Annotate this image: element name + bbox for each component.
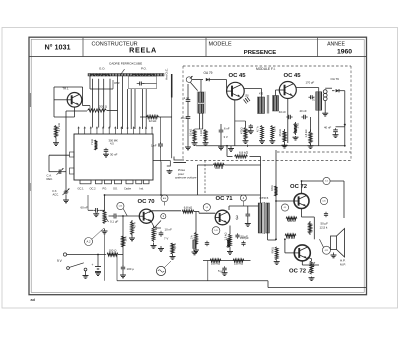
svg-text:antenne voiture: antenne voiture	[175, 176, 197, 180]
svg-text:OC 45: OC 45	[228, 73, 246, 79]
test point circle 1.16	[117, 202, 124, 209]
trimmer C.A. REC.	[58, 171, 60, 173]
wire 6.8k right down to transformer	[260, 156, 262, 203]
capacitor hang 207	[206, 241, 208, 243]
IF transformer T1 secondary	[273, 96, 279, 112]
wire transformer top left	[259, 196, 261, 203]
speaker cone	[337, 229, 345, 258]
wire P.O. box tap down a	[117, 76, 119, 129]
svg-text:1 nF: 1 nF	[151, 144, 157, 148]
svg-text:M.P.: M.P.	[340, 263, 346, 267]
svg-text:1 nF: 1 nF	[184, 96, 190, 100]
wire battery bus	[67, 254, 106, 256]
test point 5.6	[323, 177, 330, 184]
ground x188	[187, 146, 189, 147]
wire base down	[195, 212, 197, 231]
svg-text:7 kΩ: 7 kΩ	[90, 139, 94, 145]
junction dot rail276 y239	[275, 238, 277, 240]
svg-text:Cadre: Cadre	[124, 187, 132, 191]
svg-text:6,8 kΩ: 6,8 kΩ	[184, 206, 193, 210]
svg-text:OA 79: OA 79	[204, 71, 213, 75]
wire OC45b collector right	[296, 87, 318, 89]
capacitor 10nF oc70	[160, 231, 162, 233]
wire oc72u emitter	[301, 209, 303, 218]
wire tp1 diagonal	[154, 221, 161, 228]
svg-text:OTR: OTR	[114, 81, 120, 85]
junction dot oc72u collector	[301, 180, 303, 182]
resistor 900 on rail x276 lower	[275, 247, 278, 260]
switch blade	[69, 263, 84, 268]
wire to OC71 base	[194, 211, 199, 213]
svg-text:32 kΩ: 32 kΩ	[149, 119, 157, 123]
svg-text:400 Ω: 400 Ω	[215, 166, 224, 170]
dashed box module F.I. left	[182, 66, 184, 161]
wire trimmer1 leads	[49, 154, 70, 156]
ground under T1 cap	[250, 129, 252, 131]
transistor OC72 lower	[294, 245, 310, 261]
svg-text:PO.: PO.	[103, 187, 108, 191]
resistor 6.8k low	[285, 234, 296, 237]
svg-text:200 Ω: 200 Ω	[99, 105, 108, 109]
svg-text:ad: ad	[31, 298, 36, 302]
test point A.M	[161, 195, 168, 202]
svg-text:100 kΩ: 100 kΩ	[211, 262, 221, 266]
wire TR1 collector to bus	[65, 113, 67, 126]
capacitor 0.1uF coupling	[113, 215, 115, 217]
svg-text:6,8 kΩ: 6,8 kΩ	[286, 236, 295, 240]
diode D1 OA79	[206, 78, 209, 81]
gang block left tabs	[70, 152, 75, 157]
ground under 5uF	[224, 271, 226, 273]
junction tick b	[283, 145, 285, 147]
svg-text:5,6: 5,6	[325, 181, 328, 183]
capacitor 46nF	[187, 115, 189, 117]
wire A.M stub	[164, 202, 166, 206]
wire bus drop to block	[65, 111, 67, 150]
svg-text:0,1 µF: 0,1 µF	[110, 220, 118, 224]
wire x319 down	[318, 265, 320, 288]
coil L1 G.O. winding scallops	[91, 74, 110, 76]
resistor 6.8k	[235, 155, 248, 158]
wire OC45a collector right	[244, 88, 262, 90]
dashed box module F.I. top	[183, 65, 351, 67]
svg-text:7 V: 7 V	[164, 237, 168, 241]
thick antenna bar	[171, 74, 173, 98]
header divider 3	[317, 38, 319, 57]
speaker driver rect	[331, 236, 337, 250]
bottom long rail y280.7	[117, 280, 268, 282]
junction bus 123	[122, 255, 124, 267]
oscillator coil winding lower	[198, 104, 203, 113]
wire speaker top	[337, 232, 339, 236]
svg-text:4,7 kΩ: 4,7 kΩ	[57, 123, 61, 131]
resistor inside gang 7k	[95, 140, 98, 150]
svg-text:150 kΩ: 150 kΩ	[234, 262, 244, 266]
transistor TR1	[67, 93, 82, 108]
wire 475 top	[245, 121, 247, 128]
transistor OC72 upper	[294, 194, 309, 209]
resistor 32k	[147, 115, 159, 118]
resistor 2k base down	[195, 231, 198, 248]
car antenna jack symbol	[174, 157, 184, 161]
svg-text:12,5 k: 12,5 k	[320, 226, 328, 230]
wire 248 top	[247, 206, 249, 213]
test point 4.25	[320, 197, 327, 204]
wire 310 top	[310, 117, 312, 132]
wire oc70 emitter down	[150, 220, 154, 228]
wire oc71 collector up right	[228, 206, 230, 210]
resistor under T1 b	[271, 126, 274, 140]
module bottom solid rail	[196, 145, 344, 147]
svg-text:OA 79: OA 79	[331, 77, 340, 81]
svg-text:OC 70: OC 70	[137, 199, 155, 205]
OC70 emitter resistor	[152, 227, 155, 243]
svg-text:100 Ω: 100 Ω	[109, 249, 118, 253]
ground osc b	[205, 142, 207, 143]
wire TR1 base	[54, 99, 67, 101]
svg-text:4,7 kΩ: 4,7 kΩ	[154, 227, 158, 235]
vert wire x123 down	[122, 216, 124, 266]
long vertical feed x161	[160, 162, 162, 196]
pointer line to rod	[121, 69, 125, 74]
wire T2 primary bottom	[318, 110, 320, 146]
svg-text:OC.2: OC.2	[90, 187, 97, 191]
wire pot wiper right	[109, 215, 114, 217]
ground under oc71 emitter	[229, 249, 231, 252]
wire 6.8k left up	[226, 146, 228, 157]
wire osc left lead down	[199, 114, 201, 130]
transistor OC45 a	[227, 82, 245, 100]
wire oc72u base	[276, 200, 294, 202]
ground under 248	[247, 221, 249, 224]
ground under 194	[194, 250, 196, 253]
junction dot AF wire at pot	[104, 194, 106, 196]
junction dot volume top	[122, 215, 124, 217]
header bottom rule	[29, 56, 367, 58]
wire x117 up	[116, 255, 118, 281]
svg-text:10 kΩ: 10 kΩ	[188, 129, 192, 136]
resistor 1.8k vert	[309, 130, 312, 146]
svg-text:150: 150	[245, 95, 250, 98]
svg-text:40 nF: 40 nF	[324, 125, 331, 129]
svg-text:60 nF: 60 nF	[81, 205, 89, 209]
svg-text:Ant O.C.: Ant O.C.	[165, 68, 169, 80]
driver transformer secondary	[266, 203, 270, 233]
capacitor trimmer right of block	[160, 142, 162, 144]
wire trimmer2 lead	[65, 195, 67, 199]
svg-text:GO.: GO.	[113, 187, 118, 191]
wire TR1 loop right down	[82, 87, 84, 106]
wire oc70 collector to 6.8k res	[152, 210, 181, 212]
test point 1.9	[203, 204, 210, 211]
resistor 6.8k interstage	[182, 210, 194, 213]
svg-text:40 nF: 40 nF	[279, 110, 286, 114]
wire cap to pot	[100, 209, 105, 211]
svg-text:3 V: 3 V	[224, 135, 228, 139]
resistor emitter 475	[244, 128, 247, 140]
svg-text:OC 45: OC 45	[283, 73, 301, 79]
wire oc72l collector	[301, 261, 303, 265]
wire TR1 emitter down	[74, 107, 76, 117]
resistor vert 1k osc	[193, 130, 196, 142]
trimmer F.X. ACC.	[64, 191, 66, 193]
resistor R 400 ohm	[213, 164, 224, 167]
ground under det cap	[335, 133, 337, 135]
capacitor hang 243	[243, 241, 245, 243]
capacitor 40nF a	[286, 116, 288, 118]
svg-text:+: +	[92, 263, 94, 267]
wire detector to rail	[344, 127, 346, 146]
svg-text:1,8 kΩ: 1,8 kΩ	[304, 130, 308, 138]
transistor OC70	[139, 209, 153, 223]
svg-text:C.A.: C.A.	[47, 174, 52, 178]
wire diode to OC45 base	[210, 79, 227, 81]
resistor 10k bottom	[122, 236, 125, 247]
transistor OC71	[215, 210, 230, 225]
OC71 emitter resistor 1.5k	[229, 232, 232, 249]
wire osc right lead down	[202, 114, 204, 130]
tp15 pointer line	[320, 239, 324, 247]
wire tp56 to right	[330, 180, 344, 182]
wire thermistor top	[311, 259, 313, 262]
terminal 9V circle	[63, 253, 66, 256]
svg-text:4,5: 4,5	[110, 141, 114, 145]
wire x188 from input	[187, 84, 189, 98]
svg-text:10 nF: 10 nF	[165, 228, 173, 232]
IF transformer T1 primary	[258, 97, 265, 114]
osc coil core lines	[196, 92, 198, 114]
svg-text:0,5 k: 0,5 k	[273, 126, 277, 132]
ground below R1	[55, 142, 57, 143]
svg-text:REC.: REC.	[47, 177, 54, 181]
wire tp4 stub	[242, 201, 244, 206]
junction dot detector	[344, 124, 346, 126]
capacitor 6nF	[220, 128, 222, 130]
svg-text:30 nF: 30 nF	[110, 153, 118, 157]
wire rail B left corner down	[196, 165, 198, 195]
wire diode2 right corner	[339, 90, 345, 92]
IF transformer T2 secondary loops	[323, 90, 327, 94]
resistor vert 10k osc	[204, 130, 207, 142]
coil hang 194	[193, 240, 196, 249]
thermistor vert	[310, 261, 313, 274]
terminal circle antenna input	[186, 77, 192, 83]
schematic inner border frame	[31, 39, 364, 292]
ground under 283	[284, 144, 286, 145]
junction dot rail276 base	[275, 200, 277, 202]
resistor 100k	[210, 259, 221, 262]
resistor 4.7k under T1 a	[261, 126, 264, 140]
svg-text:900 Ω: 900 Ω	[288, 219, 297, 223]
electrolytic 50uF oc71	[237, 233, 239, 235]
capacitor 40nF det	[335, 128, 337, 130]
wire x188 mid	[187, 103, 189, 116]
tp116 pointer diagonal	[123, 209, 127, 216]
capacitor 1nF input	[187, 98, 189, 100]
wire R1 down	[55, 138, 57, 142]
capacitor 170pF	[308, 96, 310, 98]
test point 4	[240, 195, 246, 201]
ground under 900 lower	[276, 260, 278, 261]
ground under T1 res b	[271, 140, 273, 141]
svg-text:1,9: 1,9	[205, 207, 208, 209]
resistor R1 4.7k below loop	[55, 126, 58, 138]
svg-text:REELA: REELA	[129, 46, 157, 55]
ground under 294	[295, 136, 297, 137]
wire TR1 right out	[83, 105, 90, 107]
resistor 100 ohm bus	[107, 253, 118, 256]
resistor 35k vert	[283, 129, 286, 144]
ground under 310	[310, 145, 312, 146]
ground under 172	[172, 254, 174, 257]
svg-text:ACC.: ACC.	[53, 192, 60, 196]
ground under 475	[245, 140, 247, 141]
rail B with 400 ohm	[197, 164, 213, 166]
svg-text:4,25: 4,25	[322, 201, 325, 203]
ground under 100uF	[122, 274, 124, 275]
wire osc top lead	[200, 80, 202, 92]
wire battery top	[97, 255, 99, 267]
ground under pot	[104, 229, 106, 232]
wire OC45a base up	[226, 80, 228, 91]
gang block top pins	[78, 128, 80, 135]
wire TR1 loop bottom	[54, 116, 75, 118]
svg-text:CADRE FERROXCUBE: CADRE FERROXCUBE	[109, 62, 142, 66]
junction dot bus battery	[97, 254, 99, 256]
diode D2 OA79	[336, 89, 339, 92]
svg-text:OC 72: OC 72	[289, 268, 307, 274]
volume potentiometer	[103, 211, 106, 224]
svg-text:4,7 k: 4,7 k	[256, 126, 260, 132]
oscillator coil winding upper	[198, 92, 203, 103]
electrolytic 100uF	[122, 265, 124, 267]
wire antenna bar down to jack	[171, 98, 173, 159]
module bottom dashed rail	[186, 159, 351, 161]
junction tick a	[246, 145, 248, 147]
ground under battery	[97, 272, 99, 273]
svg-text:470: 470	[259, 93, 264, 96]
svg-text:GC.1: GC.1	[78, 187, 85, 191]
header divider 2	[205, 38, 207, 57]
svg-text:ANNEE: ANNEE	[327, 41, 345, 47]
ground below cap x231	[230, 146, 232, 149]
wire L1 tap down c	[103, 79, 105, 128]
test point +15	[322, 246, 330, 254]
ground under T1 res a	[261, 140, 263, 141]
wire transformer bottom taps	[267, 233, 269, 240]
wire cap to OC70 base	[118, 215, 140, 217]
ground under switch	[85, 275, 87, 276]
svg-text:6 nF: 6 nF	[224, 127, 230, 131]
electrolytic 50uF out	[325, 212, 327, 214]
wire oc72u collector up	[301, 181, 303, 194]
AF section top wire	[105, 194, 261, 196]
wire L1 tap down d	[109, 79, 111, 128]
resistor on rail x276	[275, 186, 278, 196]
resistor 900 ohm	[286, 217, 297, 220]
svg-text:100 µ: 100 µ	[127, 267, 135, 271]
test point small 1	[161, 214, 166, 219]
driver transformer core	[262, 202, 264, 234]
svg-text:MODELE: MODELE	[209, 41, 233, 47]
capacitor under T1	[250, 124, 252, 126]
wire 6.8k rail	[227, 155, 233, 157]
wire OC45b down	[287, 99, 289, 144]
wire P.O. tap down f	[142, 89, 144, 129]
wire right rail x276	[275, 150, 277, 239]
pot line continues down	[104, 234, 106, 281]
svg-text:F.X.: F.X.	[53, 189, 58, 193]
resistor 1k vert	[294, 122, 297, 135]
wire input to diode	[192, 79, 203, 81]
svg-text:40 nF: 40 nF	[300, 109, 307, 113]
wire 900 left	[276, 218, 286, 220]
wire 32k right	[159, 116, 172, 118]
svg-text:A.2: A.2	[86, 239, 91, 243]
svg-text:1,05: 1,05	[214, 230, 218, 232]
gang block bottom trimmer tabs	[80, 180, 91, 184]
resistor vert 12.5k	[309, 221, 312, 235]
wire L1 tap down b	[98, 79, 100, 128]
dashed box module F.I. right	[350, 66, 352, 161]
resistor hang 228	[227, 239, 230, 248]
wire T2 secondary bottom	[324, 101, 326, 112]
capacitor inside gang 30nF	[105, 148, 107, 150]
coil L2 P.O. winding scallops	[132, 74, 155, 76]
header divider 1	[82, 38, 84, 57]
capacitor 5uF	[224, 266, 226, 268]
battery cell symbol	[95, 266, 101, 268]
capacitor decoupling x248	[247, 212, 249, 214]
bottom rail y260	[203, 260, 251, 262]
jack sleeve ground	[169, 170, 171, 171]
switch contact b	[84, 268, 87, 271]
test point A2	[85, 238, 93, 246]
bus under cadre	[66, 110, 87, 112]
ground under 60nF	[95, 213, 97, 214]
junction dot detector rail	[344, 145, 346, 147]
wire TR1 loop left	[53, 87, 55, 117]
terminal diagonal lead	[190, 82, 197, 90]
wire oc72l base	[284, 239, 286, 253]
svg-text:G.O.: G.O.	[99, 66, 106, 70]
wire oc72l emitter right	[309, 248, 322, 250]
wire tpA2	[92, 228, 104, 239]
wire y260 rail left down	[207, 261, 209, 281]
padder box around P.O. section	[129, 76, 157, 88]
wire P.O. tap down e	[134, 89, 136, 129]
svg-text:10 k: 10 k	[124, 236, 128, 242]
svg-text:Ind.: Ind.	[140, 187, 145, 191]
svg-text:MODULE F.I.: MODULE F.I.	[256, 67, 276, 71]
schematic outer border frame	[29, 37, 367, 295]
svg-text:900Ω: 900Ω	[270, 247, 274, 253]
svg-text:3: 3	[236, 216, 239, 222]
svg-text:4,15: 4,15	[325, 250, 329, 252]
ferrite rod hatched band	[88, 74, 164, 77]
svg-text:4,7 k: 4,7 k	[173, 243, 177, 249]
svg-text:P.O.: P.O.	[141, 66, 147, 70]
ground under 196	[195, 248, 197, 251]
ground below 6nF	[220, 146, 222, 147]
resistor 150k	[233, 259, 244, 262]
switch contact a	[67, 267, 70, 270]
junction dot 6.8k left	[226, 145, 228, 147]
dashed vertical link at x205	[204, 160, 206, 195]
ground inside gang	[105, 153, 107, 154]
wire P.O. box tap down b	[122, 76, 124, 129]
svg-text:OC 71: OC 71	[215, 196, 233, 202]
